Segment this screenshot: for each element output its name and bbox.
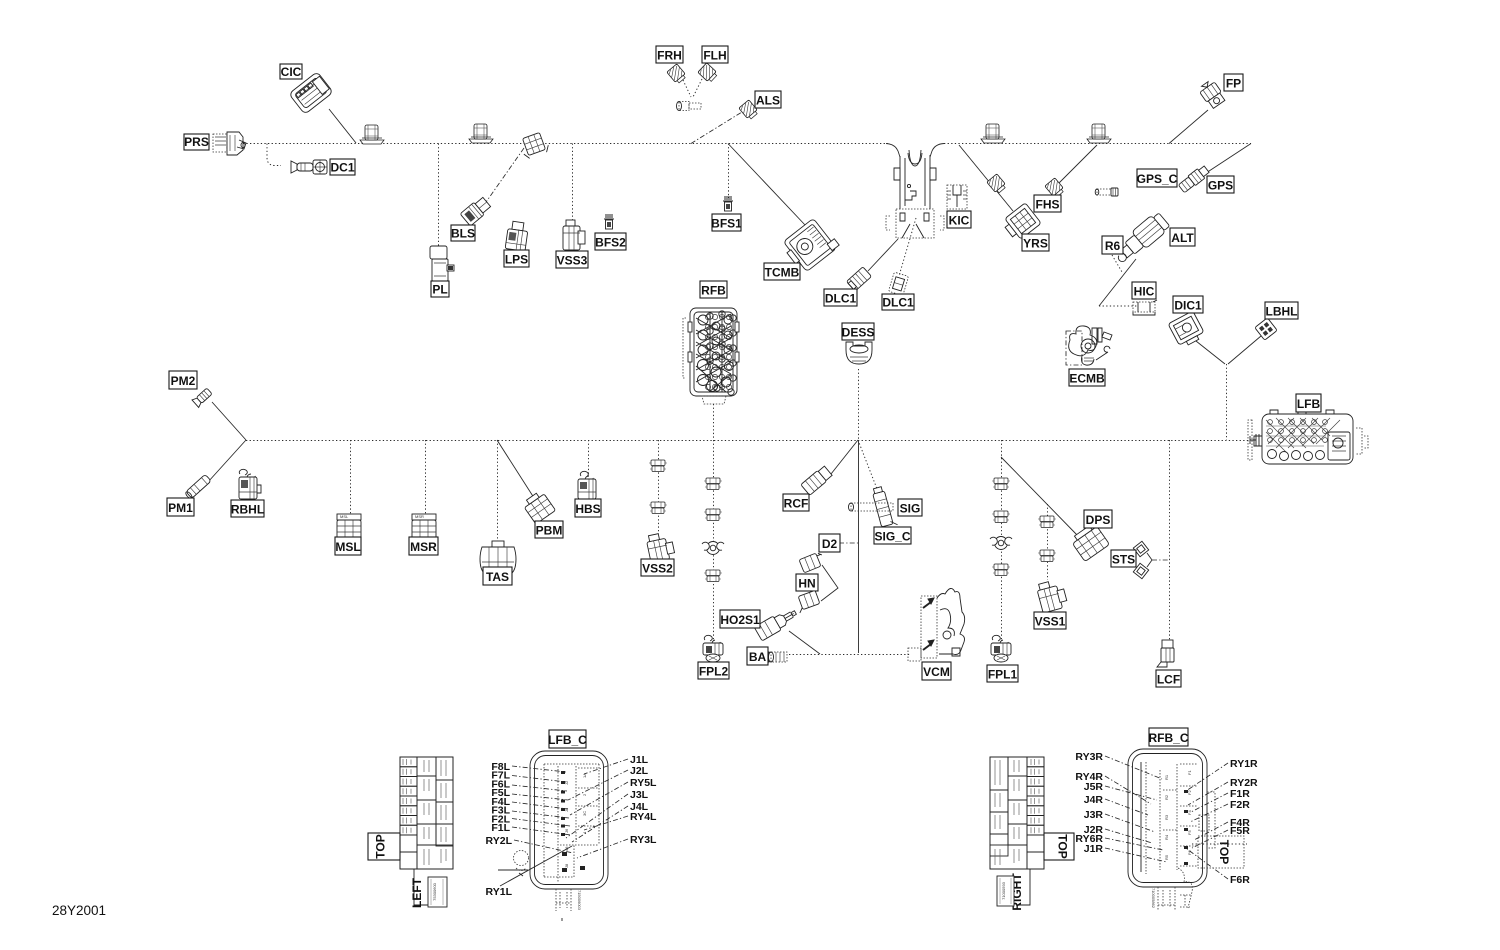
RFB_C TOP rotated label	[1192, 836, 1247, 868]
svg-text:J1R: J1R	[1084, 843, 1104, 855]
label VSS3	[556, 251, 588, 268]
svg-text:F1: F1	[1187, 770, 1192, 775]
wire: HO2S1 branch slant	[789, 631, 820, 654]
LFB_C bottom tail	[556, 889, 582, 921]
wire: BA to VCM horizontal dotted	[789, 654, 910, 656]
label MSR	[409, 537, 438, 555]
svg-text:F2: F2	[1187, 790, 1192, 795]
svg-text:BA: BA	[749, 650, 767, 664]
label LFB	[1296, 394, 1321, 412]
pin label F2R	[1190, 799, 1250, 822]
connector junction on line 1 at BLS branch	[519, 131, 551, 160]
svg-text:TOP: TOP	[1056, 834, 1070, 858]
svg-text:J4R: J4R	[1084, 794, 1104, 806]
svg-text:YRS: YRS	[1023, 237, 1048, 251]
svg-text:DLC1: DLC1	[882, 296, 914, 310]
cable clamp on line 1 near FHS	[1087, 124, 1111, 143]
svg-text:RY3R: RY3R	[1075, 751, 1103, 763]
label LCF	[1156, 670, 1181, 687]
pin label F1R	[1191, 788, 1250, 812]
connector FLH plug	[698, 63, 719, 83]
pin label RY1R	[1186, 758, 1258, 791]
label HN	[796, 574, 818, 591]
wire: D2 dash link	[839, 542, 858, 544]
label R6	[1102, 236, 1123, 254]
svg-text:SIG_C: SIG_C	[874, 530, 910, 544]
svg-text:FPL2: FPL2	[699, 665, 729, 679]
connector block LFB	[1248, 410, 1368, 464]
pin label RY6R	[1075, 833, 1163, 850]
label FPL1	[987, 665, 1018, 682]
pin label RY3L	[577, 834, 657, 858]
pin label RY3R	[1075, 751, 1162, 779]
inline pair on FPL1 drop lower	[992, 564, 1010, 576]
pin label J2L	[568, 765, 649, 800]
connector DIC1	[1168, 311, 1206, 349]
connector FRH plug	[667, 64, 687, 85]
inline pair on FPL1 drop	[992, 478, 1010, 490]
RFB_C bottom tail	[1151, 868, 1192, 911]
label TOP left table	[368, 833, 400, 860]
wire: DESS vertical dotted upper	[858, 369, 860, 440]
connector VSS3	[563, 220, 585, 250]
wire: BLS branch slant	[484, 148, 524, 205]
wire: DC1 branch stub from line 1	[267, 144, 281, 166]
pin label RY4R	[1075, 771, 1151, 804]
wire: PBM branch slant	[497, 440, 536, 501]
connector BA	[766, 652, 787, 662]
svg-text:RBHL: RBHL	[231, 503, 264, 517]
label RCF	[783, 494, 809, 511]
svg-text:DPS: DPS	[1086, 513, 1111, 527]
svg-text:RY1R: RY1R	[1230, 758, 1258, 770]
pin label F5L	[491, 787, 568, 800]
pin label RY5L	[570, 777, 657, 815]
inline pair on FPL2 drop	[704, 509, 722, 521]
svg-text:HIC: HIC	[1134, 285, 1155, 299]
connector CIC	[289, 72, 333, 115]
wire: line 1 dip into fork bracket left	[886, 144, 900, 158]
label TOP right table	[1044, 833, 1074, 860]
label DLC1 second	[882, 294, 914, 310]
label HO2S1	[720, 610, 760, 628]
connector LCF	[1157, 640, 1174, 667]
svg-text:PM1: PM1	[168, 501, 193, 515]
label SIG	[898, 499, 922, 516]
svg-text:ALT: ALT	[1171, 231, 1194, 245]
svg-text:R1: R1	[1164, 774, 1169, 780]
wire: PM1 branch slant	[208, 440, 246, 482]
label DLC1 first	[824, 289, 857, 306]
wire: BFS1 vertical drop	[728, 144, 730, 199]
pin label F4L	[491, 796, 568, 809]
svg-text:GPS_C: GPS_C	[1137, 172, 1178, 186]
wire: FHS branch slant	[1056, 145, 1097, 186]
pin label J4R	[1084, 794, 1148, 815]
connector headlight joint plug	[677, 102, 702, 111]
connector HN upper	[799, 551, 826, 573]
label BFS1	[712, 214, 741, 231]
label FRH	[656, 46, 683, 63]
label PRS	[184, 134, 209, 150]
connector HIC	[1133, 300, 1157, 315]
label RBHL	[231, 500, 264, 517]
label GPS	[1207, 176, 1234, 193]
svg-text:MSL: MSL	[340, 514, 349, 519]
connector DESS	[846, 342, 872, 364]
connector T before LFB	[1250, 434, 1259, 446]
cable clamp on line 1 near KIC	[981, 124, 1005, 143]
svg-text:LFB: LFB	[1297, 397, 1321, 411]
wire: LCF vertical drop	[1169, 440, 1171, 640]
wire: SIG branch slant dashed	[858, 440, 879, 494]
svg-text:HN: HN	[798, 577, 815, 591]
svg-text:R4: R4	[1164, 834, 1169, 840]
wire: RFB vertical above line 2	[713, 404, 715, 440]
svg-text:TCMB: TCMB	[765, 266, 800, 280]
pin label J4L	[572, 801, 649, 842]
svg-text:VSS2: VSS2	[642, 562, 673, 576]
svg-text:FRH: FRH	[657, 49, 682, 63]
svg-text:VSS1: VSS1	[1035, 615, 1066, 629]
wire: HIC dotted link	[1099, 305, 1137, 307]
svg-text:LEFT: LEFT	[410, 877, 424, 908]
label HIC	[1132, 282, 1156, 299]
svg-text:D2: D2	[822, 537, 838, 551]
connector DLC1 first	[846, 267, 871, 291]
wire: DPS branch slant	[1001, 457, 1079, 537]
connector PM2	[192, 387, 213, 407]
connector PBM	[522, 490, 556, 524]
svg-text:PM2: PM2	[171, 374, 196, 388]
pin label F4R	[1194, 817, 1250, 840]
svg-text:GPS: GPS	[1208, 179, 1233, 193]
svg-text:F5: F5	[1187, 830, 1192, 835]
connector STS upper diamond	[1133, 541, 1148, 556]
connector on YRS branch	[987, 174, 1007, 195]
svg-text:PL: PL	[432, 283, 447, 297]
connector FPL2	[703, 635, 723, 662]
svg-text:MSR: MSR	[415, 514, 424, 519]
wire: DESS-VCM vertical solid lower	[858, 440, 860, 653]
label YRS	[1022, 234, 1049, 251]
connector BFS2	[604, 215, 614, 229]
bolt through SIG	[849, 503, 894, 511]
connector RBHL	[239, 469, 261, 499]
svg-text:J2L: J2L	[630, 765, 649, 777]
wire: DLC1 second branch dashed	[899, 218, 916, 276]
svg-text:R5: R5	[1164, 854, 1169, 860]
svg-text:FHS: FHS	[1036, 198, 1060, 212]
right fuse layout table grid	[990, 757, 1044, 869]
connector FHS	[1045, 178, 1065, 199]
svg-text:RY5L: RY5L	[630, 777, 657, 789]
svg-text:KIC: KIC	[949, 214, 970, 228]
pin label J3R	[1084, 809, 1155, 832]
connector VSS2	[646, 531, 676, 563]
connector HN lower	[794, 590, 820, 613]
cable clamp on line 1	[360, 125, 384, 144]
label FPL2	[698, 662, 729, 679]
wire: TAS vertical drop	[497, 440, 499, 541]
connector PRS	[213, 132, 246, 155]
connector TAS	[480, 541, 516, 576]
svg-text:F5R: F5R	[1230, 825, 1250, 837]
label GPS_C	[1137, 169, 1177, 187]
svg-text:STS: STS	[1112, 553, 1135, 567]
LFB_C grommet detail	[514, 851, 529, 877]
connector ALT	[1110, 211, 1171, 267]
svg-text:LBHL: LBHL	[1266, 305, 1298, 319]
wire: GPS branch slant	[1203, 144, 1251, 176]
pin label RY2R	[1188, 777, 1258, 805]
svg-text:F2R: F2R	[1230, 799, 1250, 811]
label LPS	[504, 250, 529, 267]
connector RCF	[795, 465, 834, 501]
label TAS	[483, 567, 512, 585]
connector YRS	[1001, 203, 1041, 243]
svg-text:RY4L: RY4L	[630, 811, 657, 823]
label FP	[1224, 74, 1243, 91]
inline pair on FPL2 drop lower	[704, 570, 722, 582]
label RFB_C	[1149, 728, 1188, 746]
svg-text:RY3L: RY3L	[630, 834, 657, 846]
assembly ECMB	[1066, 326, 1112, 365]
left part number box	[428, 877, 447, 907]
svg-text:BLS: BLS	[451, 227, 475, 241]
svg-text:PBM: PBM	[536, 524, 563, 538]
pin label F5R	[1192, 825, 1250, 848]
pin label J1L	[584, 754, 649, 774]
pin label F7L	[491, 770, 566, 782]
pin label RY4L	[584, 811, 657, 830]
label DC1	[330, 159, 355, 175]
svg-text:28Y2001: 28Y2001	[52, 903, 106, 918]
svg-text:BFS1: BFS1	[711, 217, 742, 231]
label STS	[1111, 550, 1136, 567]
label ALT	[1170, 228, 1195, 246]
label FHS	[1034, 195, 1061, 212]
svg-text:MSR: MSR	[410, 540, 437, 554]
assembly VCM	[908, 588, 965, 661]
wire: ALS branch slant	[691, 112, 742, 144]
wire: DIC1 slant to vee	[1196, 341, 1225, 364]
connector BLS	[460, 196, 492, 226]
svg-text:J5R: J5R	[1084, 781, 1104, 793]
ring connector on FPL2 drop	[702, 542, 724, 555]
svg-text:TAS: TAS	[486, 570, 509, 584]
inline pair on FPL1 drop	[992, 511, 1010, 523]
svg-text:SIG: SIG	[900, 502, 921, 516]
connector BFS1	[723, 197, 733, 211]
inline pair on VSS2 drop	[649, 460, 667, 472]
wire: MSL vertical drop	[350, 440, 352, 514]
svg-text:DC1: DC1	[330, 161, 354, 175]
svg-text:J3L: J3L	[630, 789, 649, 801]
wire: short line near RY1L	[498, 869, 528, 871]
svg-text:RCF: RCF	[784, 497, 809, 511]
label PM2	[169, 371, 197, 389]
wire: VSS1 vertical drop	[1047, 504, 1049, 580]
wire: VSS3 vertical drop	[572, 144, 574, 222]
label LBHL	[1265, 302, 1298, 319]
svg-text:ALS: ALS	[756, 94, 780, 108]
right part number box	[997, 876, 1014, 906]
label BLS	[451, 225, 475, 241]
wire: main harness line 2 (lower, PM junction to LFB)	[246, 440, 1250, 442]
wire: STS dash-dot link	[1152, 559, 1169, 561]
connector STS lower diamond	[1133, 563, 1148, 578]
wire: RCF branch slant	[831, 440, 858, 474]
bracket fork on line 1	[886, 150, 944, 238]
pin label F6R	[1187, 849, 1250, 886]
pin label J5R	[1084, 781, 1157, 800]
svg-text:VSS3: VSS3	[557, 254, 588, 268]
svg-text:DIC1: DIC1	[1174, 299, 1202, 313]
label PL	[431, 281, 449, 297]
ring connector on FPL1 drop	[990, 537, 1012, 550]
connector GPS	[1178, 164, 1211, 193]
label HBS	[575, 499, 601, 517]
svg-text:LCF: LCF	[1157, 673, 1180, 687]
label KIC	[947, 211, 971, 228]
connector ALS	[739, 100, 759, 121]
inline pair on FPL2 drop	[704, 478, 722, 490]
wire: LBHL slant to vee	[1228, 336, 1261, 364]
wire: main harness line 1 (top, left segment PRS to fork)	[232, 143, 888, 145]
label FLH	[702, 46, 728, 63]
svg-text:F4: F4	[1187, 810, 1192, 815]
connector block RFB	[683, 308, 739, 404]
svg-text:RFB: RFB	[701, 284, 726, 298]
svg-text:TOP: TOP	[1217, 840, 1231, 864]
label DIC1	[1173, 296, 1203, 313]
label TCMB	[764, 263, 800, 280]
svg-text:715006003: 715006003	[577, 890, 582, 911]
label LFB_C	[549, 730, 586, 748]
connector KIC	[947, 185, 967, 209]
svg-text:HBS: HBS	[575, 502, 600, 516]
svg-text:75300600: 75300600	[432, 882, 437, 901]
svg-text:ECMB: ECMB	[1069, 372, 1105, 386]
connector FPL1	[991, 635, 1011, 662]
svg-text:CIC: CIC	[281, 65, 302, 79]
pin label J3L	[566, 789, 649, 838]
label VCM	[922, 662, 951, 680]
connector MSL	[337, 514, 361, 543]
svg-text:FP: FP	[1226, 77, 1241, 91]
connector LBHL	[1255, 318, 1277, 340]
svg-text:BFS2: BFS2	[595, 236, 626, 250]
pin label F8L	[491, 761, 566, 773]
left fuse layout table grid	[400, 757, 453, 869]
svg-text:J3R: J3R	[1084, 809, 1104, 821]
svg-text:R6: R6	[1105, 239, 1121, 253]
svg-text:VCM: VCM	[923, 665, 950, 679]
pin label RY1L	[486, 846, 572, 898]
pin label F2L	[491, 813, 570, 826]
pin label RY2L	[486, 835, 573, 853]
pin label J2R	[1084, 824, 1152, 843]
wire: TCMB branch slant	[728, 144, 806, 227]
bolt glyph	[1095, 188, 1118, 196]
wire: DIC1/LBHL vee vertical drop	[1226, 364, 1228, 440]
label PBM	[535, 521, 563, 538]
inline pair on VSS2 drop	[649, 502, 667, 514]
svg-text:3C: 3C	[582, 811, 587, 816]
connector HO2S1	[754, 606, 799, 641]
label CIC	[280, 64, 302, 79]
svg-text:R2: R2	[1164, 794, 1169, 800]
connector DLC1 second	[888, 272, 908, 296]
wire: CIC branch slant	[329, 109, 356, 143]
connector LPS	[505, 221, 529, 252]
svg-text:MSL: MSL	[335, 540, 360, 554]
svg-text:DESS: DESS	[842, 326, 875, 340]
connector DPS	[1070, 522, 1110, 561]
fuse box LFB_C outline	[530, 751, 608, 889]
label VSS2	[641, 559, 674, 576]
wire: KIC-YRS branch slant	[959, 145, 1013, 211]
label ALS	[755, 91, 781, 108]
label RFB	[700, 281, 727, 298]
label BFS2	[595, 233, 626, 250]
label DESS	[842, 323, 874, 340]
wire: FPL1 vertical drop chain	[1001, 440, 1003, 641]
wire: FP branch slant	[1169, 110, 1208, 144]
connector VSS1	[1036, 578, 1069, 613]
connector HBS	[578, 471, 596, 499]
inline pair on VSS1 drop	[1038, 550, 1056, 562]
fuse box RFB_C outline	[1128, 749, 1215, 887]
label MSL	[335, 537, 361, 555]
svg-text:HO2S1: HO2S1	[720, 613, 760, 627]
pin label F3L	[491, 805, 569, 818]
connector FP	[1197, 79, 1226, 110]
connector PL	[430, 246, 454, 281]
svg-text:F6R: F6R	[1230, 874, 1250, 886]
wire: VSS2 vertical drop	[658, 440, 660, 534]
wire: MSR vertical drop	[425, 440, 427, 514]
wire: HN vee links	[821, 565, 838, 601]
wire: FRH dashed lead	[683, 80, 691, 97]
pin label F6L	[491, 778, 567, 791]
connector DC1	[291, 160, 327, 174]
connector TCMB	[780, 216, 840, 274]
label D2	[819, 534, 840, 552]
svg-text:LPS: LPS	[505, 253, 528, 267]
wire: DLC1 branch slant solid	[868, 239, 898, 271]
wire: FLH dashed lead	[693, 79, 702, 97]
label DPS	[1084, 510, 1112, 528]
wire: R6 dotted link	[1112, 255, 1122, 272]
svg-text:RY1L: RY1L	[486, 886, 513, 898]
wire: FPL2 vertical drop chain	[713, 440, 715, 640]
label PM1	[167, 498, 194, 516]
svg-text:LFB_C: LFB_C	[548, 733, 587, 747]
wire: HBS vertical drop	[588, 440, 590, 476]
wire: right table tail	[1016, 869, 1030, 905]
label VSS1	[1034, 612, 1066, 629]
connector SIG	[872, 485, 898, 529]
svg-text:FLH: FLH	[703, 49, 726, 63]
svg-text:RY2L: RY2L	[486, 835, 513, 847]
svg-text:710005862: 710005862	[1151, 888, 1156, 909]
label BA	[747, 647, 768, 665]
svg-text:DLC1: DLC1	[825, 292, 857, 306]
wire: PL vertical drop	[438, 144, 440, 248]
svg-text:PRS: PRS	[184, 135, 209, 149]
